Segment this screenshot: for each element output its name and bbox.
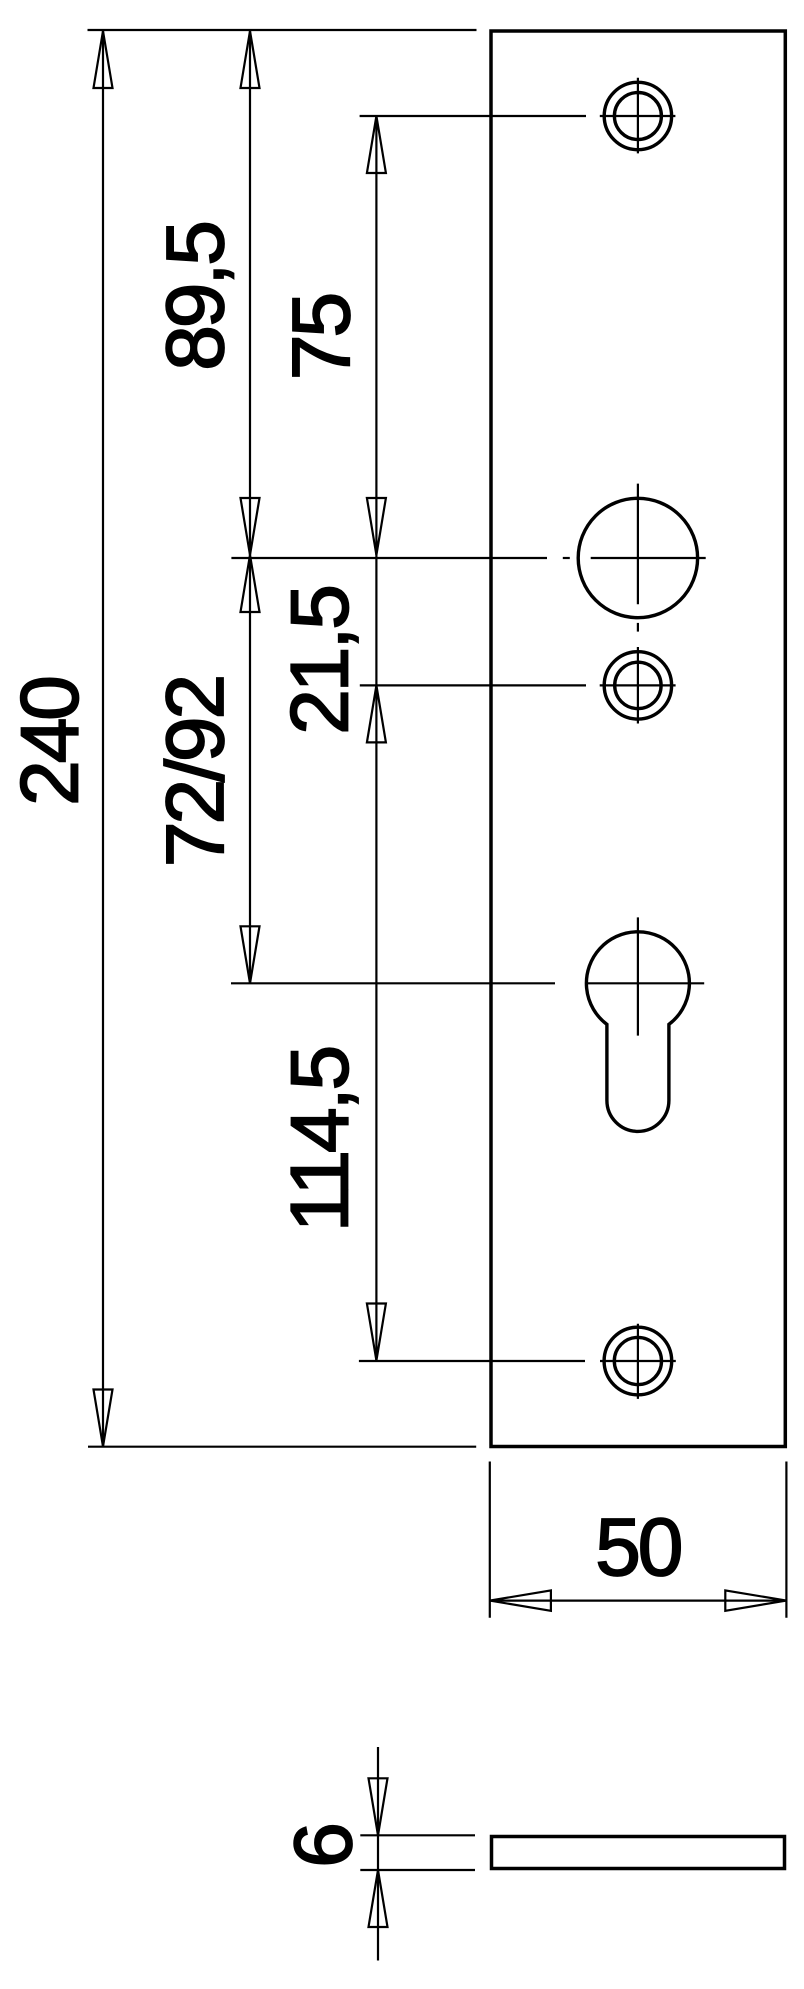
hole H3 middle screw hole inner bbox=[615, 662, 661, 708]
dimension line 89,5 / 72,92 bbox=[249, 31, 251, 983]
centerline H1 horizontal bbox=[600, 115, 676, 117]
centerline H4 horizontal bbox=[586, 982, 704, 984]
svg-text:89,5: 89,5 bbox=[150, 223, 241, 371]
extension line top edge bbox=[88, 29, 477, 31]
extension line H4 center bbox=[231, 982, 555, 984]
extension line 6 top bbox=[360, 1834, 475, 1836]
arrowhead 75 top bbox=[367, 116, 386, 173]
extension line H5 center bbox=[359, 1360, 585, 1362]
arrowhead 6 top bbox=[369, 1778, 388, 1835]
centerline H4 vertical bbox=[637, 917, 639, 1035]
arrowhead 21,5 bottom / 114,5 top bbox=[367, 685, 386, 742]
arrowhead 240 bottom bbox=[94, 1390, 113, 1447]
svg-text:75: 75 bbox=[276, 295, 367, 381]
svg-text:240: 240 bbox=[5, 678, 96, 806]
extension line H1 center bbox=[360, 115, 586, 117]
arrowhead 6 bottom bbox=[369, 1870, 388, 1927]
hole H2 handle hole (large circle) bbox=[578, 498, 697, 617]
hole H4 euro profile cylinder keyhole bbox=[586, 932, 689, 1132]
plate outline (front view) bbox=[491, 31, 785, 1447]
arrowhead 72/92 top bbox=[241, 555, 260, 612]
centerline H2 horizontal bbox=[591, 557, 706, 559]
arrowhead 89,5 top bbox=[241, 31, 260, 88]
extension line 50 right bbox=[785, 1462, 787, 1618]
arrowhead 240 top bbox=[94, 31, 113, 88]
hole H1 top screw hole outer bbox=[604, 82, 671, 149]
centerline H3 vertical bbox=[637, 647, 639, 724]
dimension line 50 bbox=[490, 1599, 787, 1601]
dimension line 6 bbox=[377, 1747, 379, 1961]
arrowhead 89,5 bottom bbox=[241, 498, 260, 555]
arrowhead 50 right bbox=[725, 1590, 786, 1610]
arrowhead 114,5 bottom bbox=[367, 1304, 386, 1361]
dimension line 240 bbox=[102, 31, 104, 1447]
hole H5 bottom screw hole outer bbox=[604, 1327, 672, 1395]
extension line H3 center bbox=[360, 684, 586, 686]
extension line bottom edge bbox=[88, 1446, 476, 1448]
centerline H5 vertical bbox=[637, 1324, 639, 1399]
centerline H5 horizontal bbox=[600, 1360, 676, 1362]
centerline H2 vertical bbox=[637, 484, 639, 605]
svg-text:72/92: 72/92 bbox=[150, 677, 241, 867]
arrowhead 75 bottom bbox=[367, 498, 386, 555]
svg-text:114,5: 114,5 bbox=[275, 1048, 366, 1233]
centerline H1 vertical bbox=[637, 78, 639, 154]
centerline H3 horizontal bbox=[600, 684, 676, 686]
svg-text:50: 50 bbox=[595, 1502, 681, 1593]
arrowhead 72/92 bottom bbox=[241, 926, 260, 983]
centerline dash vertical between H2 and H3 bbox=[637, 623, 639, 632]
hole H5 bottom screw hole inner bbox=[614, 1337, 661, 1384]
extension line 6 bottom bbox=[360, 1869, 475, 1871]
extension line H2 center bbox=[231, 557, 547, 559]
svg-text:21,5: 21,5 bbox=[275, 587, 366, 735]
dimension line 75 / 21,5 / 114,5 bbox=[375, 116, 377, 1361]
arrowhead 50 left bbox=[490, 1590, 551, 1610]
side view plate section bbox=[492, 1837, 785, 1869]
centerline dash horizontal left of H2 bbox=[563, 557, 570, 559]
hole H1 top screw hole inner bbox=[614, 93, 661, 140]
hole H3 middle screw hole outer bbox=[604, 652, 671, 719]
svg-text:6: 6 bbox=[278, 1825, 369, 1868]
extension line 50 left bbox=[489, 1462, 491, 1618]
